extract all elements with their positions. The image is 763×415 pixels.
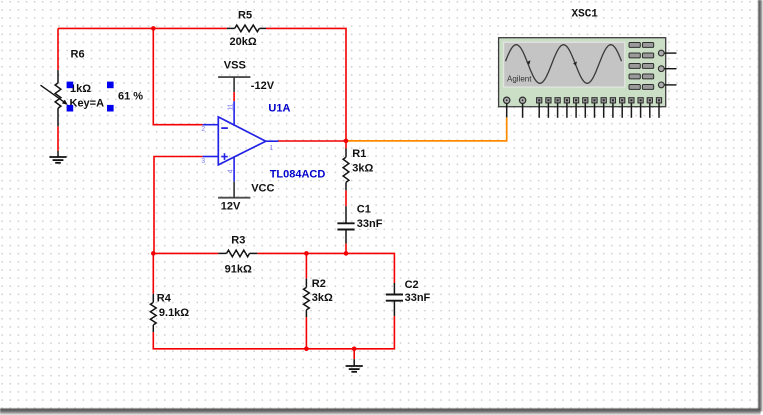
capacitor C2 33nF	[386, 279, 431, 316]
svg-text:20kΩ: 20kΩ	[230, 36, 257, 48]
svg-text:R1: R1	[352, 148, 366, 160]
node output junction	[344, 139, 349, 144]
wire C1 node to C2 column corner	[346, 253, 394, 283]
svg-text:C2: C2	[405, 279, 419, 291]
wire R3 row left segment	[153, 252, 218, 254]
resistor R4 9.1k	[150, 293, 189, 332]
oscilloscope pins	[507, 103, 659, 118]
op-amp U1A TL084ACD	[201, 101, 325, 182]
svg-text:33nF: 33nF	[405, 292, 431, 304]
svg-text:R5: R5	[238, 10, 252, 22]
ground under R6	[49, 151, 66, 163]
oscilloscope XSC1 body	[499, 38, 677, 107]
svg-text:3: 3	[201, 158, 205, 165]
svg-text:4: 4	[228, 169, 235, 173]
wire R2 column top	[305, 253, 307, 278]
svg-text:1: 1	[269, 145, 273, 152]
svg-text:VSS: VSS	[224, 60, 246, 72]
svg-text:C1: C1	[357, 204, 371, 216]
wire R6 bottom to ground	[57, 126, 59, 151]
node R2 bottom junction	[304, 347, 309, 352]
wire R2 column bottom	[305, 317, 307, 349]
svg-text:Key=A: Key=A	[70, 98, 105, 110]
wire C1 bottom to C1 node on row	[345, 243, 347, 253]
wire R4 top lead from R3 node	[152, 253, 154, 293]
svg-text:R2: R2	[312, 278, 326, 290]
svg-text:61 %: 61 %	[118, 91, 143, 103]
node R3/R4 junction	[151, 251, 156, 256]
svg-text:U1A: U1A	[268, 103, 290, 115]
svg-text:-12V: -12V	[251, 80, 275, 92]
capacitor C1 33nF	[337, 204, 382, 244]
wire ground stub on bottom rail	[353, 349, 355, 359]
svg-text:TL084ACD: TL084ACD	[270, 169, 326, 181]
resistor R2 3k	[304, 278, 334, 317]
wire top-left horizontal node to R5	[58, 27, 153, 29]
svg-text:33nF: 33nF	[357, 218, 383, 230]
wire junction to R5 left lead	[153, 27, 227, 29]
wire R1 bottom to C1 top	[345, 190, 347, 206]
svg-text:2: 2	[201, 126, 205, 133]
node C1 bottom junction	[344, 251, 349, 256]
resistor R5 20k feedback	[227, 10, 266, 48]
VSS power rail	[218, 60, 275, 102]
node ground junction	[352, 347, 357, 352]
VCC power rail	[218, 182, 274, 213]
wire bottom rail left segment	[153, 332, 354, 349]
svg-text:91kΩ: 91kΩ	[225, 264, 252, 276]
svg-text:XSC1: XSC1	[572, 9, 599, 21]
wire output node to R1	[345, 141, 347, 149]
potentiometer R6 1k	[41, 49, 144, 127]
wire node A vertical down to inverting input	[153, 28, 202, 124]
svg-text:11: 11	[227, 103, 234, 110]
resistor R1 3k	[343, 148, 373, 190]
ground bottom rail	[346, 359, 363, 372]
svg-text:R4: R4	[157, 293, 172, 305]
wire C2 bottom to bottom rail	[354, 316, 394, 349]
wire orange scope probe from output node to XSC1 terminal	[346, 117, 507, 140]
svg-text:Agilent: Agilent	[507, 74, 532, 83]
resistor R3 91k	[218, 235, 257, 276]
node R2 top junction	[304, 251, 309, 256]
svg-text:9.1kΩ: 9.1kΩ	[159, 307, 189, 319]
svg-text:3kΩ: 3kΩ	[352, 162, 373, 174]
wire R3 right lead to R2 node	[257, 252, 306, 254]
svg-text:VCC: VCC	[251, 182, 274, 194]
svg-text:3kΩ: 3kΩ	[312, 292, 333, 304]
wire R2 node to C1 node	[306, 252, 346, 254]
node A top junction	[151, 26, 156, 31]
selection handles around R6	[67, 82, 74, 89]
wire left column top down to R6	[57, 28, 59, 70]
wire R5 right lead to feedback corner and down to output node	[266, 28, 346, 140]
wire non-inverting input to bottom network	[154, 157, 203, 254]
svg-text:R3: R3	[231, 235, 245, 247]
svg-text:12V: 12V	[221, 200, 241, 212]
svg-text:R6: R6	[71, 49, 85, 61]
wire op-amp output to junction	[279, 140, 347, 142]
